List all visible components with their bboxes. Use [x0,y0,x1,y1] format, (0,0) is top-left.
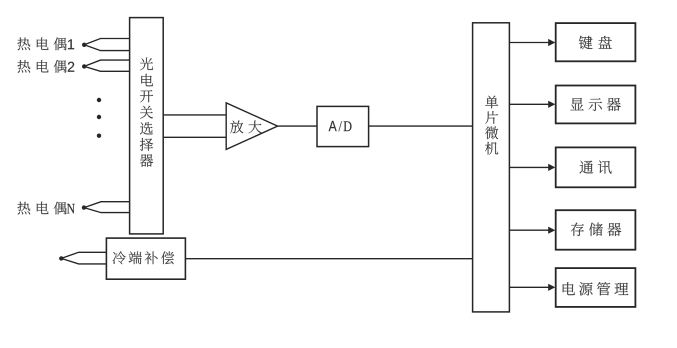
thermocouple junction 1: dot and fork wires [82,39,130,51]
label 热电偶N [17,202,74,215]
block 冷端补偿 (cold junction compensation) [106,238,185,279]
label 放大 [230,121,261,134]
label 单片微机 (vertical) [485,96,498,155]
label 电源管理 [563,282,629,295]
label 存储器 [571,223,621,236]
thermocouple junction 2: dot and fork wires [82,60,130,71]
wire cold junction compensation to microcontroller [185,258,472,260]
block 通讯 [556,147,636,187]
wire A/D to microcontroller [369,125,473,127]
arrow microcontroller to 电源管理 [509,284,555,291]
wire amplifier to A/D [278,125,317,127]
block 单片微机 (single-chip microcomputer) [473,23,510,312]
block A/D converter [317,106,369,146]
arrow microcontroller to 通讯 [509,164,555,171]
cold junction probe: dot and fork wires [59,252,106,264]
thermocouple junction N: dot and fork wires [82,202,130,213]
vertical ellipsis dots [97,98,101,138]
label 热电偶2 [17,60,74,73]
arrow microcontroller to 存储器 [509,227,555,234]
label 热电偶1 [17,37,74,50]
arrow microcontroller to 显示器 [509,101,555,108]
amplifier triangle [226,103,277,150]
wires selector to amplifier [163,115,226,137]
block 存储器 [556,210,636,250]
label 键盘 [579,36,612,49]
label 光电开关选择器 (vertical) [140,58,153,167]
label 冷端补偿 [113,251,175,264]
block 光电开关选择器 (photoelectric switch selector) [130,18,164,234]
block 显示器 [556,86,636,124]
label 显示器 [570,98,620,111]
label A/D [329,121,352,131]
label 通讯 [580,160,612,173]
block 键盘 [556,23,636,61]
block 电源管理 [556,268,636,307]
arrow microcontroller to 键盘 [509,39,555,46]
